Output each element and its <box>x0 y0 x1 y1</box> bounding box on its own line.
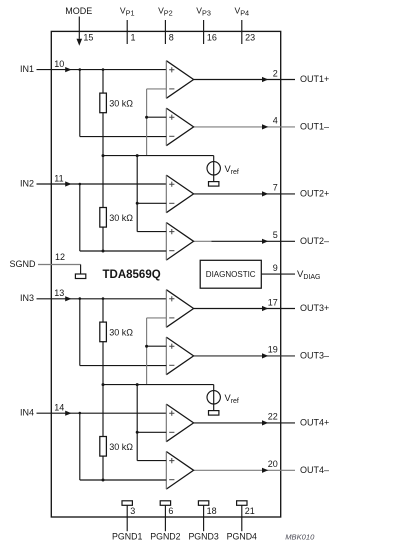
svg-text:IN2: IN2 <box>20 178 34 188</box>
wire Vref to U4 inputs <box>136 385 139 461</box>
junction IN4 node <box>79 412 82 415</box>
svg-text:15: 15 <box>83 33 93 43</box>
svg-text:9: 9 <box>273 263 278 273</box>
svg-text:14: 14 <box>54 403 64 413</box>
wire U3B non-inverting input <box>147 345 167 347</box>
svg-text:DIAGNOSTIC: DIAGNOSTIC <box>206 270 256 279</box>
wire Vref node channel 1/2 <box>102 154 214 157</box>
svg-text:OUT4–: OUT4– <box>300 465 329 475</box>
svg-text:PGND2: PGND2 <box>150 532 180 542</box>
svg-text:13: 13 <box>54 288 64 298</box>
wire PGND2 <box>164 505 166 531</box>
svg-text:5: 5 <box>273 230 278 240</box>
wire U4B non-inverting input <box>137 460 166 462</box>
resistor R1 30 kOhm <box>100 70 107 156</box>
junction U3B non-inverting tap <box>145 345 148 348</box>
wire output OUT4- <box>194 468 295 473</box>
svg-text:18: 18 <box>207 506 217 516</box>
svg-text:16: 16 <box>207 33 217 43</box>
junction U1B non-inverting tap <box>145 116 148 119</box>
wire VDIAG output <box>261 273 295 275</box>
svg-text:PGND4: PGND4 <box>227 532 257 542</box>
op-amp U1A <box>166 61 193 99</box>
svg-text:11: 11 <box>54 173 63 183</box>
wire U1B non-inverting input <box>147 116 167 118</box>
svg-text:4: 4 <box>273 116 278 126</box>
svg-text:30 kΩ: 30 kΩ <box>109 213 133 223</box>
wire IN4 to U4B inverting input <box>80 413 167 480</box>
svg-text:7: 7 <box>273 183 278 193</box>
wire IN4 input <box>37 411 167 416</box>
power ground symbol PGND1 <box>122 501 132 506</box>
pin VP1 tick <box>126 20 128 44</box>
svg-text:1: 1 <box>131 33 136 43</box>
svg-text:19: 19 <box>268 345 278 355</box>
op-amp U2A <box>166 175 193 213</box>
svg-text:OUT1–: OUT1– <box>300 121 329 131</box>
wire output OUT2+ <box>194 191 295 196</box>
wire IN3 input <box>37 296 167 301</box>
op-amp U3B <box>166 337 193 375</box>
resistor R4 30 kOhm <box>100 385 107 482</box>
signal ground symbol SGND <box>75 274 85 279</box>
wire output OUT2- <box>194 239 295 244</box>
svg-text:22: 22 <box>268 412 278 422</box>
power ground symbol PGND4 <box>237 501 247 506</box>
wire IN2 to U2B inverting input <box>80 184 167 251</box>
wire IN2 input <box>37 181 167 186</box>
svg-text:30 kΩ: 30 kΩ <box>109 442 133 452</box>
wire U2B non-inverting input <box>137 231 166 233</box>
Vref source channel 1/2 <box>207 156 220 187</box>
svg-text:2: 2 <box>273 68 278 78</box>
svg-text:SGND: SGND <box>9 259 36 269</box>
wire IN3 to U3B inverting input <box>80 299 167 366</box>
wire IN1 to U1B inverting input <box>80 70 167 137</box>
op-amp U3A <box>166 290 193 328</box>
svg-text:3: 3 <box>130 506 135 516</box>
op-amp U1B <box>166 108 193 146</box>
junction IN3 node <box>79 297 105 300</box>
power ground symbol PGND2 <box>160 501 170 506</box>
svg-text:OUT3+: OUT3+ <box>300 303 329 313</box>
svg-text:IN1: IN1 <box>20 64 34 74</box>
wire output OUT4+ <box>194 420 295 425</box>
op-amp U4A <box>166 404 193 442</box>
svg-text:OUT2–: OUT2– <box>300 236 329 246</box>
svg-text:PGND1: PGND1 <box>112 532 142 542</box>
svg-text:OUT4+: OUT4+ <box>300 417 329 427</box>
wire Vref node channel 3/4 <box>102 383 214 386</box>
svg-text:OUT3–: OUT3– <box>300 350 329 360</box>
resistor R2 30 kOhm <box>100 156 107 253</box>
wire IN1 input <box>37 67 167 72</box>
power ground symbol PGND3 <box>198 501 208 506</box>
resistor R3 30 kOhm <box>100 299 107 385</box>
pin VP2 tick <box>164 20 166 44</box>
svg-text:6: 6 <box>168 506 173 516</box>
wire Vref to U2 inputs <box>136 156 139 232</box>
op-amp U2B <box>166 223 193 261</box>
wire SGND <box>38 265 81 275</box>
IC outline TDA8569Q <box>51 31 280 517</box>
svg-text:17: 17 <box>268 297 278 307</box>
pin 15 MODE wire with arrow <box>77 17 83 46</box>
wire PGND4 <box>241 505 243 531</box>
svg-text:OUT2+: OUT2+ <box>300 188 329 198</box>
svg-text:8: 8 <box>169 33 174 43</box>
pin VP3 tick <box>203 20 205 44</box>
diagnostic block <box>200 260 261 288</box>
pin VP4 tick <box>241 20 243 44</box>
junction IN1 node <box>79 68 105 71</box>
wire U1A inverting input feedback <box>147 89 167 156</box>
svg-text:21: 21 <box>245 506 255 516</box>
wire output OUT1+ <box>194 77 295 82</box>
svg-text:PGND3: PGND3 <box>188 532 218 542</box>
svg-text:IN3: IN3 <box>20 293 34 303</box>
wire PGND3 <box>203 505 205 531</box>
svg-text:20: 20 <box>268 459 278 469</box>
wire output OUT1- <box>194 124 295 129</box>
svg-text:30 kΩ: 30 kΩ <box>109 327 133 337</box>
svg-text:10: 10 <box>54 59 64 69</box>
svg-text:12: 12 <box>55 252 65 262</box>
svg-text:OUT1+: OUT1+ <box>300 74 329 84</box>
wire output OUT3+ <box>194 306 295 311</box>
wire U4A inverting input <box>137 431 166 433</box>
svg-text:IN4: IN4 <box>20 408 34 418</box>
wire PGND1 <box>126 505 128 531</box>
svg-text:30 kΩ: 30 kΩ <box>109 98 133 108</box>
svg-text:23: 23 <box>245 33 255 43</box>
wire U2A inverting input <box>137 202 166 204</box>
wire U3A inverting input feedback <box>147 318 167 385</box>
junction IN2 node <box>79 183 82 186</box>
op-amp U4B <box>166 452 193 490</box>
svg-text:TDA8569Q: TDA8569Q <box>103 269 161 281</box>
Vref source channel 3/4 <box>207 385 220 416</box>
wire output OUT3- <box>194 353 295 358</box>
svg-text:MODE: MODE <box>65 6 92 16</box>
svg-text:MBK010: MBK010 <box>285 532 315 541</box>
